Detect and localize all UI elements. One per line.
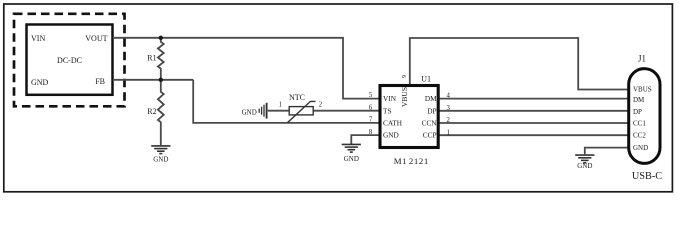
svg-text:VBUS: VBUS [633,85,652,93]
svg-text:CCP: CCP [423,131,437,140]
svg-text:DM: DM [633,96,645,104]
svg-text:3: 3 [447,105,451,112]
svg-text:U1: U1 [421,74,431,83]
svg-text:5: 5 [369,92,373,99]
svg-text:DC-DC: DC-DC [57,56,82,65]
svg-text:R1: R1 [147,53,156,62]
svg-text:TS: TS [383,106,392,115]
svg-text:VBUS: VBUS [400,87,409,107]
svg-text:CC2: CC2 [633,131,646,139]
svg-text:CC1: CC1 [633,120,646,128]
svg-text:7: 7 [369,117,373,124]
svg-text:6: 6 [369,104,373,111]
svg-text:4: 4 [447,93,451,100]
svg-text:GND: GND [383,131,399,140]
svg-text:2: 2 [319,101,323,108]
svg-text:J1: J1 [638,53,646,63]
svg-text:FB: FB [95,77,105,86]
svg-text:CCN: CCN [422,119,438,128]
svg-text:GND: GND [633,144,648,152]
svg-text:9: 9 [402,75,408,78]
svg-text:DP: DP [427,106,436,115]
svg-text:1: 1 [447,129,450,136]
svg-text:GND: GND [242,108,257,116]
svg-text:VIN: VIN [31,34,45,43]
svg-text:GND: GND [577,162,592,170]
svg-text:GND: GND [153,155,168,163]
svg-text:R2: R2 [147,107,156,116]
svg-text:VOUT: VOUT [85,34,107,43]
svg-text:VIN: VIN [383,94,397,103]
svg-text:NTC: NTC [289,93,305,102]
svg-text:USB-C: USB-C [632,171,662,182]
svg-text:M12121: M12121 [394,156,429,166]
svg-text:GND: GND [31,78,49,87]
svg-text:1: 1 [279,101,282,108]
svg-text:8: 8 [369,129,373,136]
svg-text:DM: DM [425,94,437,103]
svg-text:2: 2 [447,117,451,124]
svg-text:CATH: CATH [383,119,403,128]
svg-text:GND: GND [344,155,359,163]
svg-text:DP: DP [633,108,642,116]
